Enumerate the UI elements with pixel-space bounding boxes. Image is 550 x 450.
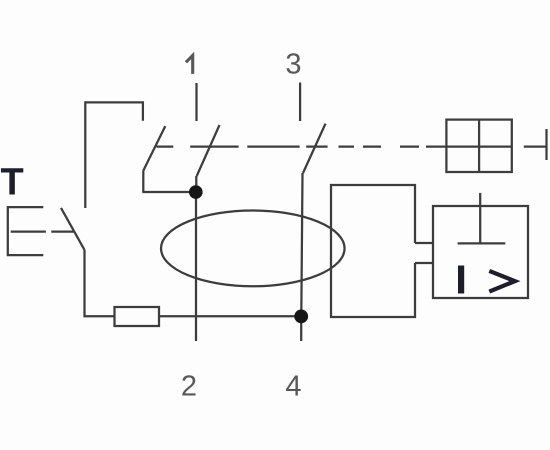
wire terminal 3 lead <box>299 83 301 122</box>
mechanical linkage dashed line right part <box>339 145 447 147</box>
linkage dash to right terminal <box>524 145 547 147</box>
node B junction dot <box>294 310 308 324</box>
node A junction dot <box>189 185 203 199</box>
switch pole 3 blade <box>303 124 326 173</box>
wire relay lower stub <box>415 262 433 264</box>
overcurrent release box U1 <box>433 206 528 298</box>
wire resistor to node B <box>159 315 301 317</box>
toroid current transformer ellipse <box>161 211 345 287</box>
svg-text:4: 4 <box>285 370 301 402</box>
wire terminal 1 lead <box>195 83 197 121</box>
wire test branch top <box>85 102 143 208</box>
wire pole 1 blade to node A <box>195 176 197 192</box>
wire relay upper stub <box>415 242 433 244</box>
resistor test resistor <box>115 307 160 326</box>
svg-text:T: T <box>1 161 24 203</box>
switch pole 1 blade <box>197 125 220 176</box>
wire test button to resistor <box>85 250 115 316</box>
mechanism square box <box>446 120 511 172</box>
test button contact blade <box>61 208 85 250</box>
relay box with open right side <box>331 185 415 317</box>
overcurrent greater-than symbol <box>489 271 515 292</box>
wire aux contact lead <box>142 171 144 192</box>
auxiliary contact blade <box>143 126 165 171</box>
test button actuator dashed link <box>11 230 74 232</box>
svg-text:3: 3 <box>285 49 301 81</box>
wire node A to terminal 2 <box>195 192 197 341</box>
wire aux contact to node A <box>142 191 196 193</box>
svg-text:2: 2 <box>181 370 197 402</box>
mechanical linkage dashed line left part <box>157 145 328 147</box>
release flag symbol bar <box>458 242 506 244</box>
right terminal bar <box>545 129 547 160</box>
overcurrent label I bar <box>458 266 464 294</box>
wire node B to terminal 4 <box>300 316 302 341</box>
wire pole 3 blade to node B <box>301 173 302 316</box>
mechanism square vertical divider <box>478 120 480 172</box>
mechanism square horizontal divider <box>446 145 511 147</box>
test button cap <box>8 207 44 255</box>
release flag symbol vertical <box>479 193 481 244</box>
terminal label 1 <box>186 55 193 74</box>
